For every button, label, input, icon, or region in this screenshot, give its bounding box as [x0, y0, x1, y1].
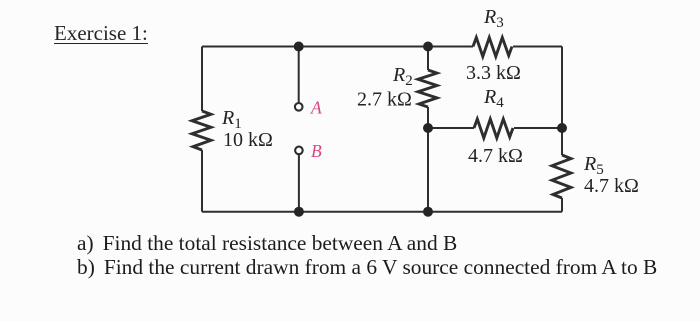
- resistor R1: [192, 111, 211, 150]
- svg-text:2.7 kΩ: 2.7 kΩ: [357, 89, 412, 111]
- wire bottom rail: [202, 211, 562, 213]
- wire top rail right of R3: [513, 46, 562, 48]
- wire left branch upper: [201, 47, 203, 112]
- resistor R4: [474, 119, 513, 138]
- wire right branch lower: [561, 198, 563, 212]
- wire B branch to bottom rail: [298, 154, 300, 211]
- wire right branch upper: [561, 47, 563, 156]
- junction bottom-B: [294, 207, 304, 217]
- wire R4 row left lead: [428, 127, 474, 129]
- resistor R2: [418, 70, 437, 107]
- junction R2-R4: [423, 123, 433, 133]
- wire top rail: [202, 46, 473, 48]
- resistor R5: [552, 155, 571, 198]
- node A terminal: [295, 103, 303, 111]
- question b: [77, 255, 657, 280]
- svg-text:10 kΩ: 10 kΩ: [223, 129, 273, 151]
- junction bottom-R2: [423, 207, 433, 217]
- svg-text:4.7 kΩ: 4.7 kΩ: [584, 175, 639, 197]
- svg-text:R2: R2: [392, 64, 413, 89]
- wire A branch from top rail: [298, 47, 300, 103]
- svg-text:R4: R4: [483, 86, 504, 111]
- title: Exercise 1:: [54, 24, 148, 44]
- wire R4 row right lead: [514, 127, 562, 129]
- node B terminal: [295, 147, 303, 155]
- svg-text:B: B: [311, 141, 322, 161]
- wire R2 branch lower: [427, 107, 429, 212]
- question a: [77, 231, 457, 256]
- wire R2 branch top lead: [427, 47, 429, 71]
- junction top-R2: [423, 42, 433, 52]
- junction R4-right: [557, 123, 567, 133]
- junction top-A: [294, 42, 304, 52]
- svg-text:A: A: [310, 98, 322, 118]
- svg-text:3.3 kΩ: 3.3 kΩ: [466, 62, 521, 84]
- svg-text:R3: R3: [483, 6, 504, 31]
- wire left branch lower: [201, 150, 203, 212]
- resistor R3: [473, 38, 512, 57]
- svg-text:4.7 kΩ: 4.7 kΩ: [468, 145, 523, 167]
